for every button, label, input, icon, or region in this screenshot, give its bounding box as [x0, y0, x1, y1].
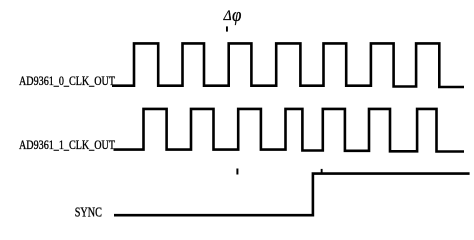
- dash marker on CLK0 rising edge: [226, 26, 228, 31]
- svg-text:AD9361_1_CLK_OUT: AD9361_1_CLK_OUT: [19, 138, 115, 152]
- svg-text:AD9361_0_CLK_OUT: AD9361_0_CLK_OUT: [19, 74, 115, 88]
- waveform AD9361_1_CLK_OUT trace: [114, 109, 465, 152]
- waveform AD9361_0_CLK_OUT trace: [112, 43, 464, 87]
- tick on SYNC high level: [321, 169, 323, 174]
- svg-text:φ: φ: [232, 5, 241, 26]
- svg-text:Δ: Δ: [223, 8, 232, 24]
- waveform SYNC trace: [114, 174, 470, 216]
- dash marker on CLK1 rising edge: [236, 169, 238, 175]
- svg-text:SYNC: SYNC: [75, 204, 102, 219]
